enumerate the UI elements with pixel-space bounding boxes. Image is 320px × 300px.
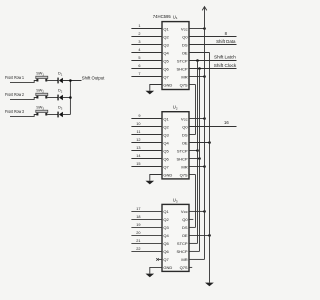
wire U3 SHCP <box>189 250 200 252</box>
wire U2 Q0 net 16 <box>189 126 237 128</box>
svg-text:20: 20 <box>136 231 140 235</box>
svg-text:SHCP: SHCP <box>176 66 187 71</box>
svg-text:STCP: STCP <box>177 241 188 246</box>
ground U1 <box>146 91 155 95</box>
wire U1 Vcc to +V bus <box>189 28 205 30</box>
svg-text:Front Row 2: Front Row 2 <box>5 92 24 97</box>
svg-text:9: 9 <box>138 114 140 118</box>
diode D1 <box>57 78 63 84</box>
wire U2 OE <box>189 142 210 144</box>
svg-text:12: 12 <box>136 138 140 142</box>
node junction row2 <box>69 96 72 99</box>
svg-text:MR: MR <box>181 164 187 169</box>
svg-text:Front Row 3: Front Row 3 <box>5 109 24 114</box>
wire U3 DS from chain <box>189 226 196 228</box>
wire U3 GND <box>150 267 162 273</box>
svg-text:11: 11 <box>137 130 141 134</box>
wire U3 STCP <box>189 242 198 244</box>
node U2 SHCP junction <box>198 157 201 160</box>
node U1 Vcc junction <box>203 27 206 30</box>
wire U2 pin 14 (Q6) <box>131 154 162 159</box>
svg-text:SW1: SW1 <box>36 72 44 77</box>
wire SW2 to D2 <box>47 97 57 99</box>
svg-text:Shift Clock: Shift Clock <box>214 63 237 68</box>
wire U1 STCP Shift Latch <box>189 60 237 62</box>
svg-text:21: 21 <box>136 239 140 243</box>
wire Front Row 3 stub <box>10 115 37 117</box>
svg-text:6: 6 <box>138 64 140 68</box>
svg-text:19: 19 <box>136 223 140 227</box>
wire U1 Q7S to chain <box>189 84 196 86</box>
IC U1 74HC595 body <box>162 22 189 90</box>
wire U1 pin 7 (Q7) <box>131 72 162 77</box>
svg-text:DS: DS <box>182 132 188 137</box>
wire U3 pin 22 (Q6) <box>131 247 162 252</box>
wire D3 to shift output bus <box>63 114 71 116</box>
wire SW3 to D3 <box>47 114 57 116</box>
wire U2 pin 9 (Q1) <box>131 114 162 119</box>
node U2 MR junction <box>203 165 206 168</box>
svg-text:Q1: Q1 <box>163 26 169 31</box>
switch SW1 <box>36 76 48 81</box>
wire U3 Q0 stub <box>189 218 193 220</box>
svg-text:Shift Data: Shift Data <box>216 39 236 44</box>
svg-text:4: 4 <box>138 48 140 52</box>
node U1 SHCP junction <box>198 67 201 70</box>
svg-text:SHCP: SHCP <box>176 156 187 161</box>
svg-text:Q0: Q0 <box>182 124 188 129</box>
wire U2 STCP <box>189 150 198 152</box>
wire D2 to shift output bus <box>63 97 71 99</box>
svg-text:Q2: Q2 <box>163 217 169 222</box>
wire U2 DS from chain <box>189 134 196 136</box>
switch SW2 <box>36 93 48 98</box>
wire D1 to shift output bus <box>63 80 82 82</box>
wire U2 pin 13 (Q5) <box>131 146 162 151</box>
wire U1 pin 5 (Q5) <box>131 56 162 61</box>
svg-text:1: 1 <box>138 24 140 28</box>
svg-text:STCP: STCP <box>177 58 188 63</box>
node U3 Q7 no-connect <box>156 258 162 261</box>
svg-text:Q7S: Q7S <box>180 172 188 177</box>
wire Vcc/MR bus vertical <box>204 29 206 260</box>
wire Front Row 2 stub <box>10 98 37 100</box>
svg-text:74HC595: 74HC595 <box>153 14 171 19</box>
wire U1 pin 4 (Q4) <box>131 48 162 53</box>
svg-text:Q5: Q5 <box>163 58 169 63</box>
svg-text:SHCP: SHCP <box>176 249 187 254</box>
svg-text:Q1: Q1 <box>163 209 169 214</box>
svg-text:7: 7 <box>138 72 140 76</box>
svg-text:Q3: Q3 <box>163 225 169 230</box>
ground U2 <box>146 181 155 185</box>
wire U1 SHCP Shift Clock <box>189 68 237 70</box>
svg-text:Q1: Q1 <box>163 116 169 121</box>
svg-text:OE: OE <box>182 140 188 145</box>
wire U3 Vcc to +V bus <box>189 210 205 212</box>
svg-text:Q7S: Q7S <box>180 265 188 270</box>
switch SW3 <box>36 110 48 115</box>
svg-text:18: 18 <box>136 215 140 219</box>
wire OE bus vertical <box>209 53 211 283</box>
wire U2 Q7S to chain <box>189 174 196 176</box>
wire U1 MR to +V bus <box>189 76 205 78</box>
wire U2 GND <box>150 175 162 181</box>
svg-text:DS: DS <box>182 42 188 47</box>
svg-text:Q4: Q4 <box>163 233 169 238</box>
svg-text:Vcc: Vcc <box>181 209 188 214</box>
wire U1 pin 6 (Q6) <box>131 64 162 69</box>
node U3 OE junction <box>208 234 211 237</box>
svg-text:Front Row 1: Front Row 1 <box>5 75 24 80</box>
ground OE pulldown <box>205 283 214 287</box>
ground U3 <box>146 274 155 278</box>
svg-text:10: 10 <box>136 122 140 126</box>
svg-text:U2: U2 <box>173 105 178 111</box>
wire U2 pin 15 (Q7) <box>131 162 162 167</box>
svg-text:14: 14 <box>136 154 140 158</box>
svg-text:16: 16 <box>224 120 229 125</box>
svg-text:Q2: Q2 <box>163 34 169 39</box>
svg-text:Vcc: Vcc <box>181 116 188 121</box>
svg-text:Q3: Q3 <box>163 42 169 47</box>
svg-text:Q0: Q0 <box>182 34 188 39</box>
svg-text:SW3: SW3 <box>36 106 44 111</box>
svg-text:OE: OE <box>182 50 188 55</box>
svg-text:Shift Output: Shift Output <box>82 76 105 81</box>
wire U1 pin 2 (Q2) <box>131 32 162 37</box>
svg-text:STCP: STCP <box>177 148 188 153</box>
diode D2 <box>57 95 63 101</box>
wire U3 pin 21 (Q5) <box>131 239 162 244</box>
svg-text:GND: GND <box>163 172 172 177</box>
wire U2 Vcc to +V bus <box>189 118 205 120</box>
svg-text:Q6: Q6 <box>163 66 169 71</box>
svg-text:Q4: Q4 <box>163 50 169 55</box>
wire DS chain U2-U3 <box>195 175 197 228</box>
svg-text:SW2: SW2 <box>36 89 44 94</box>
svg-text:OE: OE <box>182 233 188 238</box>
svg-text:U3: U3 <box>173 198 178 204</box>
svg-text:Q5: Q5 <box>163 241 169 246</box>
svg-text:Q7: Q7 <box>163 257 169 262</box>
wire STCP bus vertical <box>197 61 199 244</box>
node U3 Vcc junction <box>203 210 206 213</box>
svg-text:MR: MR <box>181 74 187 79</box>
svg-text:Vcc: Vcc <box>181 26 188 31</box>
IC U3 74HC595 body <box>162 204 189 271</box>
node junction row1 <box>69 79 72 82</box>
wire U3 pin 19 (Q3) <box>131 223 162 228</box>
svg-text:GND: GND <box>163 82 172 87</box>
svg-text:Q2: Q2 <box>163 124 169 129</box>
svg-text:Q4: Q4 <box>163 140 169 145</box>
svg-text:Q7: Q7 <box>163 164 169 169</box>
svg-text:Q7S: Q7S <box>180 82 188 87</box>
wire DS chain U1-U2 <box>195 85 197 135</box>
wire shift output vertical <box>69 81 71 115</box>
wire U1 Q0 net 8 <box>189 36 237 38</box>
wire U1 DS Shift Data <box>189 44 237 46</box>
wire U2 MR to +V bus <box>189 166 205 168</box>
wire U1 GND <box>150 85 162 91</box>
IC U2 74HC595 body <box>162 112 189 179</box>
svg-text:Shift Latch: Shift Latch <box>214 54 236 59</box>
svg-text:3: 3 <box>138 40 140 44</box>
svg-text:Q6: Q6 <box>163 156 169 161</box>
wire U3 OE <box>189 234 210 236</box>
svg-text:8: 8 <box>225 31 228 36</box>
wire Front Row 1 stub <box>10 81 37 83</box>
svg-text:17: 17 <box>136 207 140 211</box>
wire U3 pin 17 (Q1) <box>131 207 162 212</box>
svg-text:5: 5 <box>138 56 140 60</box>
node U1 STCP junction <box>196 59 199 62</box>
svg-text:DS: DS <box>182 225 188 230</box>
svg-text:GND: GND <box>163 265 172 270</box>
node U2 STCP junction <box>196 149 199 152</box>
svg-text:U1: U1 <box>173 14 178 20</box>
node U1 MR junction <box>203 75 206 78</box>
wire U3 pin 18 (Q2) <box>131 215 162 220</box>
svg-text:MR: MR <box>181 257 187 262</box>
wire U2 pin 12 (Q4) <box>131 138 162 143</box>
svg-text:13: 13 <box>136 146 140 150</box>
svg-text:Q5: Q5 <box>163 148 169 153</box>
diode D3 <box>57 112 63 118</box>
svg-text:D3: D3 <box>58 106 63 111</box>
wire U3 Q7S stub <box>189 266 192 268</box>
wire U1 pin 1 (Q1) <box>131 24 162 29</box>
node U2 OE junction <box>208 141 211 144</box>
power +V symbol arrow <box>202 7 207 29</box>
svg-text:D2: D2 <box>58 89 63 94</box>
svg-text:2: 2 <box>138 32 140 36</box>
svg-text:Q3: Q3 <box>163 132 169 137</box>
wire U3 pin 20 (Q4) <box>131 231 162 236</box>
wire U1 pin 3 (Q3) <box>131 40 162 45</box>
svg-text:Q6: Q6 <box>163 249 169 254</box>
wire U1 OE <box>189 52 210 54</box>
svg-text:Q0: Q0 <box>182 217 188 222</box>
wire SHCP bus vertical <box>199 69 201 252</box>
svg-text:15: 15 <box>136 162 140 166</box>
wire SW1 to D1 <box>47 80 57 82</box>
wire U2 pin 10 (Q2) <box>131 122 162 127</box>
wire U3 MR to +V bus <box>189 258 205 260</box>
wire U2 SHCP <box>189 158 200 160</box>
node U2 Vcc junction <box>203 117 206 120</box>
wire U2 pin 11 (Q3) <box>131 130 162 135</box>
svg-text:22: 22 <box>136 247 140 251</box>
svg-text:Q7: Q7 <box>163 74 169 79</box>
svg-text:D1: D1 <box>58 72 63 77</box>
